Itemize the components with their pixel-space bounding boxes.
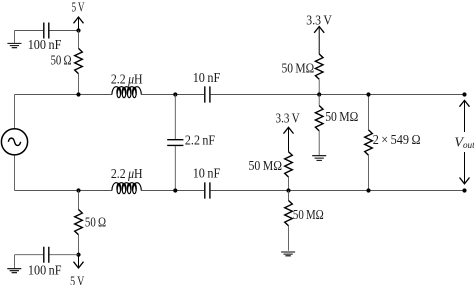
svg-text:50 MΩ: 50 MΩ [293, 208, 324, 223]
resistor 2x549 (right, between rails) [368, 95, 370, 130]
svg-text:2.2 μH: 2.2 μH [111, 72, 143, 87]
wire top-left horizontal from ground to node [15, 30, 79, 32]
capacitor C2 10nF (top) [205, 86, 210, 102]
node dot (78,190) [76, 188, 80, 192]
node dot (368,94) [366, 92, 370, 96]
resistor 50M (below top rail, to ground) [318, 95, 320, 106]
svg-text:50 MΩ: 50 MΩ [249, 159, 283, 174]
svg-text:10 nF: 10 nF [193, 166, 221, 181]
inductor L1 2.2uH (top) [112, 87, 141, 98]
capacitor 100nF (bottom left) [44, 247, 49, 263]
wire bottom-left horizontal [15, 254, 79, 256]
AC source V1 [14, 95, 16, 191]
resistor 50M (middle, to 3.3V) [285, 152, 293, 177]
right terminal dots [462, 92, 466, 96]
5V supply arrow (bottom, pointing down) [78, 255, 80, 267]
svg-text:5 V: 5 V [70, 275, 84, 285]
node dot (368,190) [366, 188, 370, 192]
Vout arrow up [464, 101, 466, 132]
resistor 50M (top right, to 3.3V) [315, 54, 323, 79]
node dot (174.8,190) [173, 188, 177, 192]
ground (bottom left) [14, 255, 16, 269]
ground (bottom middle) [281, 252, 295, 256]
resistor 50M (below bottom rail, to ground) [288, 191, 290, 201]
svg-text:50 Ω: 50 Ω [51, 53, 72, 68]
svg-text:100 nF: 100 nF [28, 264, 62, 279]
svg-text:5 V: 5 V [72, 0, 85, 15]
capacitor C3 2.2nF (middle vertical) [174, 95, 176, 191]
svg-text:Vout: Vout [454, 136, 474, 151]
5V supply arrow (top) [78, 18, 80, 30]
node dot (78,94) [76, 92, 80, 96]
svg-text:50 MΩ: 50 MΩ [282, 61, 315, 76]
svg-text:100 nF: 100 nF [28, 38, 62, 53]
svg-text:2 × 549 Ω: 2 × 549 Ω [373, 133, 421, 148]
svg-text:50 MΩ: 50 MΩ [325, 110, 358, 125]
svg-text:2.2 nF: 2.2 nF [185, 134, 215, 149]
resistor 50 ohm (bottom left) [78, 191, 80, 210]
node dot (318.7,94) [317, 92, 321, 96]
ground (top left) [14, 31, 16, 43]
top rail wires [15, 94, 465, 96]
inductor L2 2.2uH (bottom) [112, 183, 141, 194]
bottom rail wires [15, 190, 465, 192]
node dot (78,254.2) [76, 253, 80, 257]
svg-text:10 nF: 10 nF [193, 71, 221, 86]
svg-text:50 Ω: 50 Ω [85, 215, 106, 230]
capacitor C1 100nF (top left) [44, 23, 49, 39]
resistor R1 50 ohm (top left) [78, 31, 80, 49]
node dot (174.8,94) [173, 92, 177, 96]
svg-text:3.3 V: 3.3 V [276, 111, 300, 126]
svg-text:2.2 μH: 2.2 μH [111, 167, 143, 182]
capacitor C4 10nF (bottom) [205, 182, 210, 198]
Vout arrow down [464, 152, 466, 183]
ground (right, under 50M) [312, 156, 326, 161]
node dot (78,30) [76, 28, 80, 32]
node dot (288,190) [286, 188, 290, 192]
